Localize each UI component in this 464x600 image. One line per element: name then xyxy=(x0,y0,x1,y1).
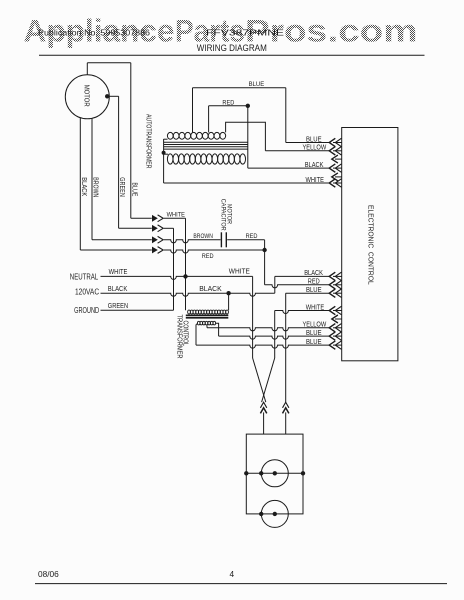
svg-text:WHITE: WHITE xyxy=(306,304,325,311)
connector arrow control pin black-low (points left) xyxy=(333,275,342,277)
electronic control U1 xyxy=(342,128,398,361)
svg-text:RED: RED xyxy=(308,279,320,286)
wire motor blue lead (BLUE) xyxy=(130,63,132,219)
svg-text:.com: .com xyxy=(328,12,418,48)
wire autotransformer left leg xyxy=(163,139,165,183)
wire white drop diagonal xyxy=(262,358,275,402)
svg-text:ELECTRONIC CONTROL: ELECTRONIC CONTROL xyxy=(366,205,375,285)
node node neutral junction xyxy=(183,274,187,278)
node node autotransformer left tap xyxy=(162,151,166,155)
wire yellow lower input run xyxy=(207,328,329,331)
svg-text:YELLOW: YELLOW xyxy=(303,322,327,329)
wire blue control drop xyxy=(285,88,287,143)
connector arrow motor plug pin 1 (points right) xyxy=(152,215,158,222)
watermark xyxy=(24,12,418,48)
autotransformer core xyxy=(164,142,248,149)
wire row3 brown run xyxy=(164,240,221,243)
wire primary right leg xyxy=(228,293,230,310)
svg-text:BLACK: BLACK xyxy=(305,162,324,169)
wire white drop v3b xyxy=(274,311,276,359)
wire row2 green run xyxy=(164,227,174,229)
connector arrow lamp plug pin 2 (points up) xyxy=(283,402,289,408)
connector arrow control pin blue-c-low (points left) xyxy=(333,344,342,346)
wire row1 white run xyxy=(164,217,186,219)
wire blue-c lower input run xyxy=(196,345,329,348)
lamp assembly housing xyxy=(246,434,303,514)
connector arrow control pin spare-3 (points left, unwired) xyxy=(335,318,342,320)
wire blue top run xyxy=(193,87,286,89)
wire row2 lead xyxy=(119,227,152,229)
wire line row (BLACK 120VAC) xyxy=(101,293,275,296)
wire lower winding left end stub xyxy=(164,153,168,155)
svg-text:GREEN: GREEN xyxy=(108,301,128,310)
wire white feeder xyxy=(185,218,187,310)
svg-text:WHITE: WHITE xyxy=(109,267,128,276)
svg-text:WIRING DIAGRAM: WIRING DIAGRAM xyxy=(197,43,267,53)
node lamp B1 terminal left xyxy=(259,471,263,475)
svg-text:AUTOTRANSFORMER: AUTOTRANSFORMER xyxy=(145,114,154,169)
wire motor black lead (BLACK) xyxy=(79,118,81,251)
wire blue drop v4 xyxy=(285,293,287,402)
wire row1 lead xyxy=(131,217,152,219)
footer rule xyxy=(35,583,447,585)
connector arrow motor plug pin 4 (points right) xyxy=(152,247,158,254)
connector arrow control pin red-low (points left) xyxy=(333,284,342,286)
wire white lower input run xyxy=(275,311,330,314)
svg-text:BROWN: BROWN xyxy=(92,177,99,197)
connector arrow control pin white-top (points left) xyxy=(333,182,342,184)
svg-text:4: 4 xyxy=(230,569,235,579)
wire neutral row (WHITE) xyxy=(101,276,253,279)
wire green feeder xyxy=(173,228,175,310)
svg-text:BLACK: BLACK xyxy=(199,284,222,293)
connector arrow motor plug pin 3 (points right) xyxy=(152,236,158,243)
header rule xyxy=(39,54,425,56)
wire ground row (GREEN) xyxy=(101,309,174,311)
wire blue tap drop xyxy=(192,88,194,133)
wire blue-b lower input run xyxy=(219,336,330,339)
node lamp node right edge xyxy=(301,471,305,475)
connector arrow control pin white-low (points left) xyxy=(333,310,342,312)
wire upper winding left end stub xyxy=(164,138,168,140)
capacitor C1 (motor capacitor) plate 1 xyxy=(220,232,222,247)
motor M1 xyxy=(65,75,109,119)
wire motor green lead (GREEN) xyxy=(118,96,120,228)
lamp B1 (upper bulb) xyxy=(261,460,288,487)
svg-text:BLACK: BLACK xyxy=(80,177,87,196)
svg-text:WHITE: WHITE xyxy=(306,177,325,184)
connector arrow motor plug pin 2 (points right) xyxy=(152,225,158,232)
svg-text:FFV387PMNE: FFV387PMNE xyxy=(206,28,285,38)
svg-text:BLACK: BLACK xyxy=(304,270,323,277)
capacitor C1 plate 2 xyxy=(225,232,227,247)
wire secondary left leg xyxy=(196,324,197,346)
node lamp node left edge xyxy=(244,471,248,475)
svg-text:RED: RED xyxy=(222,99,234,106)
transformer T1 core xyxy=(186,314,229,316)
svg-text:GREEN: GREEN xyxy=(118,177,125,197)
wire red top run xyxy=(209,105,248,107)
wire blue control input run xyxy=(286,142,330,144)
svg-text:BLUE: BLUE xyxy=(306,339,322,346)
node node red junction xyxy=(262,248,266,252)
svg-text:MOTOR: MOTOR xyxy=(225,204,232,224)
inductor L1 autotransformer lower winding xyxy=(167,154,245,164)
wire row4 red run xyxy=(164,250,265,253)
wire red drop to junction xyxy=(264,240,266,250)
node node red tap junction xyxy=(246,104,250,108)
wire motor top lead xyxy=(86,63,88,75)
wire neutral drop v1 xyxy=(252,276,254,358)
svg-text:WHITE: WHITE xyxy=(167,212,186,219)
svg-text:120VAC: 120VAC xyxy=(75,286,99,296)
node lamp B2 terminal center xyxy=(273,512,277,516)
connector arrow control pin spare-2 (points left, unwired) xyxy=(335,176,342,178)
connector arrow control pin blue-low (points left) xyxy=(333,292,342,294)
connector arrow control pin spare-1 (points left, unwired) xyxy=(335,158,342,160)
svg-text:CAPACITOR: CAPACITOR xyxy=(219,199,226,231)
wire red tap drop xyxy=(208,106,210,133)
svg-text:BLACK: BLACK xyxy=(108,284,128,293)
transformer T1 secondary winding xyxy=(197,321,215,325)
wire neutral drop diagonal xyxy=(253,358,266,402)
lamp B2 (lower bulb) xyxy=(261,500,288,527)
svg-text:Publication No. 5995307886: Publication No. 5995307886 xyxy=(38,28,150,38)
svg-text:WHITE: WHITE xyxy=(229,267,250,276)
transformer T1 primary winding xyxy=(188,310,229,314)
wire row4 lead xyxy=(80,249,152,251)
wire motor brown lead (BROWN) xyxy=(91,118,93,239)
svg-text:BLUE: BLUE xyxy=(306,136,322,143)
wire secondary right leg xyxy=(216,323,219,336)
svg-text:BROWN: BROWN xyxy=(193,233,213,240)
svg-text:BLUE: BLUE xyxy=(249,81,265,88)
svg-text:CONTROL: CONTROL xyxy=(181,321,188,347)
wire blue lower input run xyxy=(286,292,330,294)
node motor terminal junction xyxy=(105,94,109,98)
wire yellow control input run xyxy=(265,150,329,152)
node node line-primary junction xyxy=(226,291,230,295)
svg-text:RED: RED xyxy=(202,253,214,260)
wire motor green lead top run xyxy=(107,95,118,97)
svg-text:YELLOW: YELLOW xyxy=(303,145,327,152)
connector arrow control pin black-top (points left) xyxy=(333,167,342,169)
svg-text:MOTOR: MOTOR xyxy=(82,85,91,107)
wire winding common drop (to black row) xyxy=(247,106,249,168)
svg-text:RED: RED xyxy=(246,233,258,240)
svg-text:GROUND: GROUND xyxy=(74,305,99,315)
wire black control input run xyxy=(248,167,330,169)
inductor L1 autotransformer upper winding xyxy=(167,132,225,139)
wire motor blue lead top run xyxy=(87,62,131,64)
wire lamp row xyxy=(246,472,303,474)
svg-text:BLUE: BLUE xyxy=(130,182,137,196)
wire black lower input run xyxy=(275,275,330,277)
wire red lower input run xyxy=(265,285,330,288)
connector arrow control pin yellow-top (points left) xyxy=(333,150,342,152)
connector arrow lamp plug pin 1 (points up) xyxy=(260,402,266,408)
wire black-to-line link xyxy=(274,276,276,293)
svg-text:BLUE: BLUE xyxy=(306,287,322,294)
wire white control input run xyxy=(164,182,330,184)
svg-text:08/06: 08/06 xyxy=(38,569,59,579)
connector arrow control pin blue-top (points left) xyxy=(333,142,342,144)
wire upper winding right riser xyxy=(226,122,266,151)
svg-text:BLUE: BLUE xyxy=(306,330,322,337)
connector arrow control pin yellow-low (points left) xyxy=(333,327,342,329)
connector arrow control pin blue-b-low (points left) xyxy=(333,335,342,337)
node lamp B1 terminal center xyxy=(273,471,277,475)
wire row3 lead xyxy=(92,239,152,241)
wire capacitor right lead xyxy=(227,239,264,241)
svg-text:NEUTRAL: NEUTRAL xyxy=(70,272,99,282)
node lamp B2 terminal left xyxy=(259,512,263,516)
wire secondary center tap xyxy=(206,325,208,328)
wire red control drop xyxy=(264,250,266,285)
